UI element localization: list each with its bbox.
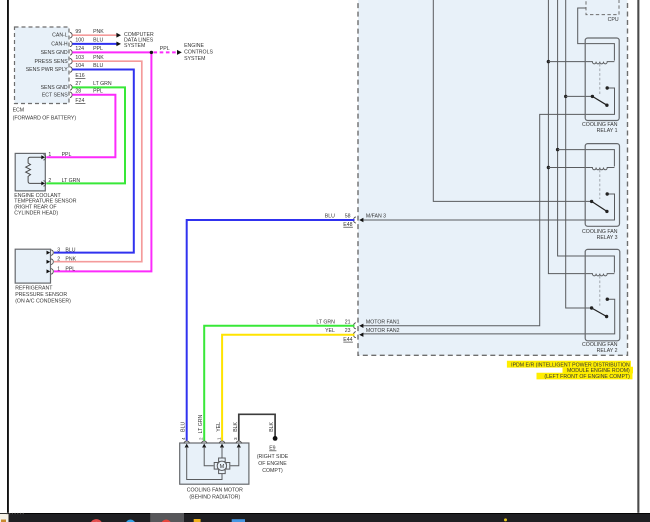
engine controls system label <box>184 43 213 62</box>
svg-text:BLK: BLK <box>269 421 275 431</box>
node sens gnd junction <box>150 51 153 54</box>
svg-text:COOLING FAN: COOLING FAN <box>582 122 618 128</box>
wire PPL dashed to engine controls <box>154 51 177 53</box>
svg-text:LT GRN: LT GRN <box>62 178 81 184</box>
svg-text:COMPT): COMPT) <box>262 468 283 474</box>
pin 21 MOTOR FAN1 connector on IPDM <box>345 320 400 329</box>
wire D to relay1 pivot <box>566 95 592 97</box>
wire YEL MOTOR FAN2 to motor pin 1 <box>222 335 354 441</box>
right page border line <box>637 0 639 513</box>
svg-text:PPL: PPL <box>93 88 103 94</box>
relay K2 coil <box>591 274 615 276</box>
relay K3 COOLING FAN RELAY 3 <box>582 144 619 241</box>
wire bus B (coil common) <box>548 0 590 274</box>
thermistor element <box>26 157 43 183</box>
wire PNK CAN-L <box>72 34 116 36</box>
relay K1 coil <box>591 62 615 64</box>
svg-text:CONTROLS: CONTROLS <box>184 50 213 56</box>
wire BLU M/FAN3 to motor pin 4 <box>187 220 355 441</box>
CPU box U-CPU <box>586 0 619 23</box>
wire bus F (relay 3 pivot feed) <box>433 0 591 201</box>
computer data lines system label <box>124 32 154 49</box>
svg-text:PRESSURE SENSOR: PRESSURE SENSOR <box>15 292 67 298</box>
svg-text:(BEHIND RADIATOR): (BEHIND RADIATOR) <box>189 494 240 500</box>
svg-text:(ON A/C CONDENSER): (ON A/C CONDENSER) <box>15 299 71 305</box>
svg-text:RELAY 2: RELAY 2 <box>597 348 618 354</box>
svg-text:27: 27 <box>75 81 81 87</box>
svg-text:REFRIGERANT: REFRIGERANT <box>15 286 53 292</box>
svg-text:(LEFT FRONT OF ENGINE COMPT): (LEFT FRONT OF ENGINE COMPT) <box>544 374 630 380</box>
relay K2 coil-switch dashed link <box>599 276 601 306</box>
svg-text:BLU: BLU <box>65 248 75 254</box>
svg-text:CAN-H: CAN-H <box>51 41 68 47</box>
svg-text:MOTOR FAN2: MOTOR FAN2 <box>366 328 400 334</box>
svg-text:BLU: BLU <box>93 63 103 69</box>
wire C to relay3 coil right <box>558 150 615 167</box>
wire BLK motor pin 3 to ground <box>239 414 275 440</box>
relay K2 COOLING FAN RELAY 2 <box>582 249 620 354</box>
wire PPL SENS GND pin 124 <box>54 52 151 271</box>
svg-text:LT GRN: LT GRN <box>93 81 112 87</box>
yellow highlight marker <box>507 361 633 380</box>
pin 1 arc <box>51 269 53 274</box>
motor M1 symbol <box>219 458 226 462</box>
svg-text:YEL: YEL <box>325 328 335 334</box>
svg-text:RELAY 3: RELAY 3 <box>597 235 618 241</box>
relay K3 coil <box>591 168 615 170</box>
svg-text:21: 21 <box>345 320 351 326</box>
svg-text:M/FAN 3: M/FAN 3 <box>366 214 386 220</box>
relay K2 switch pivot <box>590 306 593 309</box>
svg-text:58: 58 <box>345 213 351 219</box>
IPDM label text <box>511 362 630 379</box>
svg-text:103: 103 <box>75 55 84 61</box>
svg-text:28: 28 <box>75 88 81 94</box>
wire B to relay1 coil <box>548 61 590 63</box>
ECT sensor name label <box>14 193 76 216</box>
wire bus C (coil feed relays 2-3) <box>558 0 615 273</box>
svg-text:YEL: YEL <box>216 422 222 432</box>
relay K3 coil-switch dashed link <box>599 170 601 199</box>
svg-text:RELAY 1: RELAY 1 <box>597 128 618 134</box>
svg-text:(FORWARD OF BATTERY): (FORWARD OF BATTERY) <box>13 115 77 121</box>
ECM pin arcs <box>70 33 72 98</box>
svg-text:SYSTEM: SYSTEM <box>184 56 205 62</box>
pin 3 arc <box>51 250 53 255</box>
svg-text:1: 1 <box>216 437 221 440</box>
svg-text:99: 99 <box>75 29 81 35</box>
left page border line <box>7 0 9 513</box>
ECM wire color labels <box>93 29 112 95</box>
relay K1 switch pivot <box>591 95 594 98</box>
svg-text:4: 4 <box>181 437 186 440</box>
svg-text:SENS PWR SPLY: SENS PWR SPLY <box>26 67 69 73</box>
wire BLU CAN-H <box>72 43 116 45</box>
svg-text:BLU: BLU <box>93 38 103 44</box>
svg-text:LT GRN: LT GRN <box>198 415 204 434</box>
svg-text:SENS GND: SENS GND <box>41 85 68 91</box>
ECT pin 2 arc <box>43 181 45 186</box>
svg-text:BLU: BLU <box>181 421 187 431</box>
wire relay1 output to MOTOR FAN1 <box>363 88 615 326</box>
svg-text:104: 104 <box>75 63 84 69</box>
pin 58 M/FAN 3 connector on IPDM <box>343 213 386 228</box>
vertical pin numbers <box>181 437 238 440</box>
svg-text:PPL: PPL <box>160 46 170 52</box>
wire LT GRN MOTOR FAN1 to motor pin 2 <box>204 326 354 441</box>
relay K3 NO contact <box>606 192 609 195</box>
wire CPU to relay 1 coil <box>578 8 615 61</box>
relay K3 switch arm <box>592 201 607 211</box>
svg-text:(RIGHT SIDE: (RIGHT SIDE <box>257 454 289 460</box>
svg-text:3: 3 <box>57 248 60 254</box>
motor pin arrows <box>185 444 241 448</box>
wire relay2 output / MOTOR FAN2 line <box>363 299 615 334</box>
svg-text:PNK: PNK <box>93 55 104 61</box>
svg-text:2: 2 <box>57 257 60 263</box>
relay K3 switch pivot <box>590 200 593 203</box>
svg-text:COOLING FAN: COOLING FAN <box>582 229 618 235</box>
wire PNK PRESS SENS pin 103 <box>54 61 142 262</box>
motor internal wires <box>221 447 223 458</box>
cooling fan motor box <box>180 441 249 484</box>
svg-text:BLU: BLU <box>325 214 335 220</box>
svg-text:SYSTEM: SYSTEM <box>124 43 145 49</box>
node C-R3 junction <box>556 148 559 151</box>
svg-text:M: M <box>220 464 225 470</box>
relay K2 switch arm <box>592 308 607 317</box>
ECM pin numbers <box>75 29 84 95</box>
node B-R3 junction <box>547 166 550 169</box>
svg-text:1: 1 <box>57 266 60 272</box>
motor name label <box>187 488 243 501</box>
svg-text:PPL: PPL <box>93 46 103 52</box>
ECM module block <box>15 27 70 104</box>
svg-text:LT GRN: LT GRN <box>316 320 335 326</box>
svg-text:23: 23 <box>345 328 351 334</box>
svg-text:ECM: ECM <box>13 108 25 114</box>
ECT pin 1 arc <box>43 155 45 160</box>
wire bus D (switch feed relays 1-2) <box>566 0 592 308</box>
node B-R1 junction <box>547 60 550 63</box>
svg-text:100: 100 <box>75 38 84 44</box>
relay K1 NO contact <box>606 86 609 89</box>
svg-text:BLK: BLK <box>233 421 239 431</box>
svg-text:CPU: CPU <box>608 17 619 23</box>
motor pin arcs <box>184 441 242 443</box>
svg-text:MOTOR FAN1: MOTOR FAN1 <box>366 320 400 326</box>
svg-text:2: 2 <box>198 437 203 440</box>
wire B to relay3 coil <box>548 167 590 169</box>
svg-text:ECT SENS: ECT SENS <box>42 92 68 98</box>
svg-text:COOLING FAN: COOLING FAN <box>582 342 618 348</box>
wire PPL ECT SENS pin 28 <box>46 95 115 158</box>
svg-text:124: 124 <box>75 46 84 52</box>
svg-text:OF ENGINE: OF ENGINE <box>258 461 287 467</box>
pin 23 MOTOR FAN2 connector on IPDM <box>343 328 399 343</box>
svg-text:2: 2 <box>48 178 51 184</box>
svg-text:PNK: PNK <box>93 29 104 35</box>
refrigerant sensor name label <box>15 286 71 305</box>
svg-text:PPL: PPL <box>65 266 75 272</box>
ECM pin labels <box>26 33 69 99</box>
svg-text:PPL: PPL <box>62 152 72 158</box>
svg-text:ENGINE: ENGINE <box>184 43 204 49</box>
relay K2 NO contact <box>606 298 609 301</box>
ECT pin arrows <box>41 155 45 159</box>
bottom taskbar <box>0 513 650 522</box>
ECT sensor box <box>15 152 80 191</box>
refrigerant pin arrows <box>47 251 51 255</box>
relay K1 coil-switch dashed link <box>599 64 601 94</box>
ground E9 <box>273 436 278 441</box>
svg-text:CYLINDER HEAD): CYLINDER HEAD) <box>14 210 58 216</box>
wire BLU SENS PWR SPLY pin 104 <box>54 70 134 253</box>
vertical wire labels <box>181 415 275 434</box>
IPDM E/R module block <box>358 0 628 355</box>
refrigerant pressure sensor box <box>15 248 76 284</box>
svg-text:1: 1 <box>48 152 51 158</box>
pin 2 arc <box>51 259 53 264</box>
node D-R1 junction <box>564 95 567 98</box>
relay K1 COOLING FAN RELAY 1 <box>582 38 619 134</box>
relay K1 switch arm <box>592 96 607 105</box>
wire relay3 output / M FAN 3 line <box>363 194 615 220</box>
svg-text:3: 3 <box>233 437 238 440</box>
svg-text:PNK: PNK <box>65 257 76 263</box>
svg-text:COOLING FAN MOTOR: COOLING FAN MOTOR <box>187 488 243 494</box>
svg-text:PRESS SENS: PRESS SENS <box>35 59 69 65</box>
svg-text:SENS GND: SENS GND <box>41 50 68 56</box>
wire LT GRN SENS GND pin 27 <box>46 87 125 183</box>
svg-text:CAN-L: CAN-L <box>52 33 68 39</box>
